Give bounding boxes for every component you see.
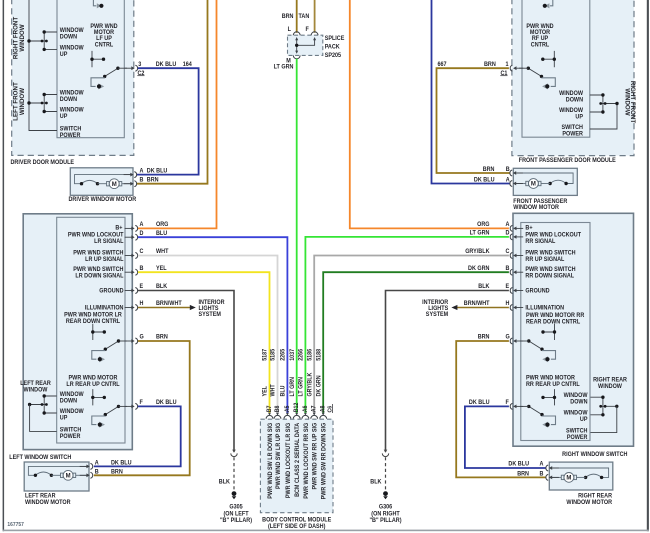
motor M1 internals [75, 175, 134, 189]
wire BLK (RWS E to G306) [386, 291, 509, 452]
motor M4 pin B [517, 471, 559, 480]
splice pin F [305, 27, 318, 36]
svg-text:A: A [506, 222, 511, 228]
RWS pin G (BRN) [478, 334, 524, 344]
RWS pin C (GRY/BLK) [465, 249, 523, 259]
wire DK BLU (LWS F to LR motor A) [94, 406, 181, 466]
motor M2 FRONT PASSENGER WINDOW MOTOR box [513, 168, 577, 195]
label BLK (G306) [370, 479, 382, 485]
svg-text:WINDOW: WINDOW [24, 387, 48, 393]
wire BLK dashed to G305 [233, 457, 235, 490]
svg-text:E: E [140, 284, 144, 290]
svg-text:(ON RIGHT: (ON RIGHT [371, 511, 400, 517]
svg-text:ORG: ORG [156, 222, 169, 228]
svg-text:WINDOW: WINDOW [60, 45, 84, 51]
svg-text:RIGHT REAR: RIGHT REAR [578, 493, 613, 499]
RWS pin D (LT GRN) [470, 230, 524, 240]
switch common bus (driver module) [29, 0, 57, 131]
arrow to interior lights system (right) [451, 305, 457, 310]
svg-text:ILLUMINATION: ILLUMINATION [525, 305, 564, 311]
svg-text:WINDOW: WINDOW [60, 90, 84, 96]
label LEFT WINDOW SWITCH [9, 455, 71, 461]
svg-text:PWR WND LOCKOUT: PWR WND LOCKOUT [525, 232, 581, 238]
switch S5 right rear window rocker contacts [591, 396, 619, 417]
module U2 FRONT PASSENGER DOOR MODULE box [512, 0, 634, 156]
LWS pin A (ORG) [125, 222, 169, 232]
svg-text:B8: B8 [275, 406, 281, 413]
svg-text:POWER: POWER [60, 434, 81, 440]
svg-text:G305: G305 [229, 504, 243, 510]
svg-text:BRN: BRN [483, 167, 495, 173]
svg-text:PWR WND SWITCH: PWR WND SWITCH [73, 250, 123, 256]
svg-text:PACK: PACK [325, 44, 341, 50]
svg-text:WINDOW MOTOR: WINDOW MOTOR [513, 205, 559, 211]
svg-text:DK BLU: DK BLU [508, 461, 529, 467]
svg-text:E: E [506, 284, 510, 290]
svg-text:BRN: BRN [478, 334, 490, 340]
svg-text:BLK: BLK [370, 479, 382, 485]
RWS pin H (BRN/WHT) [464, 301, 523, 311]
svg-text:B: B [140, 266, 144, 272]
label INTERIOR LIGHTS SYSTEM (right) [422, 300, 449, 318]
svg-text:GRY/BLK: GRY/BLK [307, 372, 313, 397]
labels BRN TAN at top of splice [282, 14, 310, 20]
svg-text:H: H [140, 301, 144, 307]
svg-text:WINDOW: WINDOW [623, 88, 630, 115]
svg-text:PWR WND SW LR DOWN SIG: PWR WND SW LR DOWN SIG [268, 422, 274, 498]
module U3 BODY CONTROL MODULE box [260, 419, 333, 513]
svg-text:BLK: BLK [156, 284, 168, 290]
svg-text:WINDOW: WINDOW [60, 28, 84, 34]
svg-text:DK GRN: DK GRN [468, 266, 489, 272]
wire DK BLU 164 (pin3 to driver motor A) [137, 68, 199, 174]
svg-text:WINDOW: WINDOW [60, 107, 84, 113]
pin 1 connector C1 (passenger door module) [500, 62, 523, 77]
svg-text:CNTRL: CNTRL [95, 42, 114, 48]
motor M3 pin B [80, 469, 123, 478]
svg-text:RR REAR UP CNTRL: RR REAR UP CNTRL [526, 382, 580, 388]
svg-text:B12: B12 [294, 403, 300, 413]
svg-text:DOWN: DOWN [60, 398, 77, 404]
BCM connector C6 label [327, 404, 333, 413]
motor M2 pin B [483, 167, 523, 176]
svg-text:YEL: YEL [156, 266, 167, 272]
wire DK BLU right (top to FP motor A) [432, 0, 511, 184]
LWS pin G (BRN) [125, 334, 168, 344]
label FRONT PASSENGER DOOR MODULE [519, 158, 616, 164]
label PWR WND MOTOR LR REAR UP CNTRL [66, 375, 120, 388]
svg-text:A7: A7 [311, 406, 317, 413]
label PWR WND MOTOR RF UP CNTRL [526, 24, 553, 49]
svg-text:PWR WND SWITCH: PWR WND SWITCH [525, 267, 575, 273]
wire DK GRN (RWS B to BCM A8) [323, 272, 509, 413]
wire label DK BLU 164 [156, 62, 193, 68]
splice pin L [288, 27, 300, 36]
svg-text:RIGHT WINDOW SWITCH: RIGHT WINDOW SWITCH [562, 452, 627, 458]
svg-text:BLU: BLU [156, 231, 167, 237]
diagram number 167757 [7, 522, 23, 528]
svg-text:DRIVER WINDOW MOTOR: DRIVER WINDOW MOTOR [69, 197, 137, 203]
BCM rotated wire number / color / pin labels [262, 348, 326, 412]
svg-text:A: A [540, 461, 545, 467]
svg-text:5188: 5188 [316, 348, 322, 361]
wire BLK (LWS E to G305) [138, 291, 234, 452]
RWS pin B (DK GRN) [468, 266, 523, 276]
svg-text:"B" PILLAR): "B" PILLAR) [369, 518, 401, 524]
svg-text:B: B [140, 177, 144, 183]
svg-text:PWR WND MOTOR LR: PWR WND MOTOR LR [64, 312, 122, 318]
svg-text:D: D [140, 231, 144, 237]
svg-text:DOWN: DOWN [570, 399, 587, 405]
svg-text:ORG: ORG [477, 222, 490, 228]
svg-text:M: M [66, 473, 71, 479]
svg-text:DK BLU: DK BLU [469, 400, 490, 406]
switch S4 left rear window rocker contacts [28, 394, 57, 414]
module U1 DRIVER DOOR MODULE box [12, 0, 134, 155]
label G306 ON RIGHT B PILLAR [369, 504, 401, 524]
svg-text:DOWN: DOWN [60, 34, 77, 40]
right rear switch common to SWITCH POWER [591, 406, 617, 432]
labels WINDOW DOWN / UP / SWITCH POWER (left rear) [60, 392, 84, 440]
label LEFT REAR WINDOW [20, 381, 51, 394]
svg-text:DK GRN: DK GRN [316, 375, 322, 396]
switch upper motor-control hook (cut off at top) [93, 0, 103, 8]
svg-text:BRN: BRN [111, 469, 123, 475]
label RIGHT WINDOW SWITCH [562, 452, 627, 458]
svg-text:LR UP SIGNAL: LR UP SIGNAL [85, 257, 124, 263]
svg-text:B: B [506, 167, 510, 173]
svg-text:SPLICE: SPLICE [325, 36, 345, 42]
switch RR REAR UP CNTRL (drives pin F) [520, 389, 556, 428]
switch assembly LEFT WINDOW SWITCH box [23, 214, 132, 450]
svg-text:A: A [140, 222, 145, 228]
svg-text:BLK: BLK [478, 284, 490, 290]
motor M3 pin A [80, 460, 132, 469]
svg-text:LT GRN: LT GRN [290, 377, 296, 397]
svg-text:LR SIGNAL: LR SIGNAL [94, 239, 124, 245]
svg-text:C: C [140, 249, 145, 255]
svg-text:B: B [540, 471, 544, 477]
svg-text:M: M [112, 182, 117, 188]
label SPLICE PACK SP205 [325, 36, 345, 59]
wire BRN (LWS G to LR motor B) [94, 341, 190, 475]
LWS internal signal labels [68, 225, 124, 312]
switch S2 left front window rocker contacts [27, 93, 57, 113]
svg-text:WINDOW: WINDOW [60, 392, 84, 398]
svg-text:H: H [506, 301, 510, 307]
wire TAN (top to splice F) [314, 0, 316, 33]
ground G306 symbol [383, 491, 388, 499]
switch LR REAR UP CNTRL (drives pin F) [91, 389, 127, 428]
svg-text:SWITCH: SWITCH [60, 427, 81, 433]
svg-text:LEFT WINDOW SWITCH: LEFT WINDOW SWITCH [9, 455, 71, 461]
LWS pin C (WHT) [125, 249, 169, 259]
wire BRN (RWS G to RR motor B) [456, 341, 545, 477]
label LT GRN below splice [274, 64, 294, 70]
svg-text:LT GRN: LT GRN [274, 64, 294, 70]
RWS internal signal labels [525, 225, 581, 312]
svg-text:DK BLU: DK BLU [147, 168, 168, 174]
label FRONT PASSENGER WINDOW MOTOR [513, 199, 568, 211]
svg-text:(LEFT SIDE OF DASH): (LEFT SIDE OF DASH) [268, 524, 326, 530]
svg-text:SP205: SP205 [325, 53, 342, 59]
svg-text:WHT: WHT [270, 384, 276, 397]
wire BLK dashed to G306 [385, 457, 387, 490]
ground G305 symbol [232, 491, 237, 499]
svg-text:BODY CONTROL MODULE: BODY CONTROL MODULE [262, 517, 331, 523]
BCM rotated signal name labels [268, 422, 328, 499]
left rear switch common to SWITCH POWER [30, 405, 57, 432]
svg-text:BRN: BRN [282, 14, 294, 20]
svg-text:C: C [506, 249, 511, 255]
svg-text:WINDOW: WINDOW [19, 24, 26, 51]
rotated label LEFT FRONT WINDOW [12, 82, 26, 121]
motor M4 pin A [508, 461, 558, 471]
RWS pin E (BLK) [478, 284, 523, 294]
wire BRN 667 (pin1 to FP motor B) [437, 68, 511, 173]
svg-text:B7: B7 [267, 406, 273, 413]
label PWR WND MOTOR LR REAR DOWN CNTRL [64, 312, 122, 325]
svg-text:BRN: BRN [147, 177, 159, 183]
svg-text:SYSTEM: SYSTEM [426, 312, 449, 318]
svg-text:WINDOW: WINDOW [564, 410, 588, 416]
rotated label RIGHT FRONT WINDOW (passenger) [623, 81, 636, 123]
label PWR WND MOTOR LF UP CNTRL [90, 24, 117, 49]
svg-text:B: B [506, 266, 510, 272]
svg-text:LR DOWN SIGNAL: LR DOWN SIGNAL [75, 273, 124, 279]
svg-text:TAN: TAN [299, 14, 310, 20]
svg-text:WHT: WHT [156, 249, 169, 255]
svg-text:A5: A5 [285, 406, 291, 413]
wire LT GRN (BCM A6 to RWS D) [305, 237, 509, 414]
svg-text:CNTRL: CNTRL [531, 42, 550, 48]
svg-text:RR DOWN SIGNAL: RR DOWN SIGNAL [525, 273, 574, 279]
LWS pin F (DK BLU) [125, 400, 177, 410]
svg-text:UP: UP [60, 114, 68, 120]
wire ORG left (top to LWS pin A) [138, 0, 217, 228]
label BLK (G305) [219, 479, 231, 485]
svg-text:PWR WND SWITCH: PWR WND SWITCH [73, 267, 123, 273]
ground G306 connector chevron [382, 450, 388, 457]
svg-text:FRONT PASSENGER DOOR MODULE: FRONT PASSENGER DOOR MODULE [519, 158, 616, 164]
svg-text:SYSTEM: SYSTEM [199, 312, 222, 318]
svg-text:POWER: POWER [567, 435, 588, 441]
labels WINDOW DOWN / WINDOW UP / SWITCH POWER (left front) [60, 90, 84, 139]
svg-text:DK BLU: DK BLU [156, 400, 177, 406]
svg-text:WINDOW MOTOR: WINDOW MOTOR [566, 500, 612, 506]
svg-text:PWR WND SW RR DOWN SIG: PWR WND SW RR DOWN SIG [321, 422, 327, 499]
svg-text:WINDOW: WINDOW [564, 393, 588, 399]
svg-text:BCM CLASS 2 SERIAL DATA: BCM CLASS 2 SERIAL DATA [295, 422, 301, 497]
svg-text:DRIVER DOOR MODULE: DRIVER DOOR MODULE [11, 160, 75, 166]
svg-text:2266: 2266 [298, 349, 304, 361]
label PWR WND MOTOR RR REAR UP CNTRL [526, 375, 580, 388]
splice pack SP205 box [288, 35, 323, 55]
motor M1 DRIVER WINDOW MOTOR box [70, 168, 133, 196]
svg-text:WINDOW: WINDOW [559, 108, 583, 114]
svg-text:L: L [288, 27, 292, 33]
svg-text:F: F [305, 27, 309, 33]
ground G305 connector chevron [231, 450, 237, 457]
svg-text:WINDOW: WINDOW [559, 91, 583, 97]
wire DK BLU (RWS F to RR motor A) [465, 406, 546, 468]
svg-text:D: D [506, 230, 510, 236]
switch S1 right front window rocker contacts [27, 30, 57, 51]
svg-text:PWR WND MOTOR RR: PWR WND MOTOR RR [526, 313, 585, 319]
svg-text:ILLUMINATION: ILLUMINATION [85, 305, 124, 311]
svg-text:WINDOW: WINDOW [598, 384, 622, 390]
svg-text:PWR WND MOTOR: PWR WND MOTOR [526, 375, 576, 381]
svg-text:1037: 1037 [290, 349, 296, 361]
svg-text:B: B [95, 469, 99, 475]
svg-text:UP: UP [580, 417, 588, 423]
arrow to interior lights system (left) [190, 305, 196, 310]
svg-text:POWER: POWER [562, 131, 583, 137]
LWS pin D (BLU) [125, 231, 168, 241]
svg-text:UP: UP [575, 114, 583, 120]
wire BRN/WHT (LWS H to interior lights) [138, 307, 190, 309]
BCM connector pin arcs [266, 413, 327, 419]
svg-text:RR SIGNAL: RR SIGNAL [525, 239, 555, 245]
LWS pin E (BLK) [125, 284, 168, 294]
switch upper motor-control hook (cut off, passenger) [543, 0, 553, 8]
wire BRN/WHT (RWS H to interior lights) [457, 307, 509, 309]
svg-text:UP: UP [60, 415, 68, 421]
svg-text:2265: 2265 [280, 348, 286, 361]
pin 3 connector C2 (driver door module) [125, 62, 146, 77]
svg-text:G: G [506, 334, 511, 340]
svg-text:B+: B+ [115, 225, 123, 231]
LWS pin H (BRN/WHT) [125, 301, 183, 311]
svg-text:F: F [140, 400, 144, 406]
svg-text:LT GRN: LT GRN [298, 377, 304, 397]
svg-text:GRY/BLK: GRY/BLK [465, 249, 490, 255]
svg-text:WINDOW MOTOR: WINDOW MOTOR [25, 500, 71, 506]
svg-text:PWR WND SW RR UP SIG: PWR WND SW RR UP SIG [312, 422, 318, 489]
wire GRY/BLK (RWS C to BCM A7) [314, 256, 509, 414]
label BODY CONTROL MODULE (LEFT SIDE OF DASH) [262, 517, 331, 530]
label DRIVER DOOR MODULE [11, 160, 75, 166]
svg-text:DOWN: DOWN [60, 97, 77, 103]
motor M1 pin A [124, 168, 168, 177]
svg-text:A6: A6 [303, 406, 309, 413]
svg-text:M: M [531, 182, 536, 188]
switch LR REAR DOWN CNTRL (drives pin G) [91, 324, 127, 363]
svg-text:(ON LEFT: (ON LEFT [223, 511, 249, 517]
svg-text:PWR WND MOTOR: PWR WND MOTOR [69, 375, 119, 381]
motor M3 LEFT REAR WINDOW MOTOR box [24, 462, 89, 491]
wire YEL (LWS B to BCM B7) [138, 272, 270, 413]
svg-text:RIGHT REAR: RIGHT REAR [593, 377, 628, 383]
splice pin M [286, 55, 300, 64]
wire BRN (top to driver motor B) [137, 0, 208, 184]
RWS pin A (ORG) [477, 222, 523, 232]
label RIGHT REAR WINDOW MOTOR [566, 493, 612, 506]
motor M2 internals [513, 173, 573, 188]
svg-text:F: F [506, 400, 510, 406]
svg-text:PWR WND SWITCH: PWR WND SWITCH [525, 250, 575, 256]
switch common bus (passenger module) [590, 104, 617, 130]
wire ORG right (top to RWS pin A) [350, 0, 509, 228]
switch S3 right front window rocker contacts (passenger) [590, 93, 619, 113]
label LEFT REAR WINDOW MOTOR [25, 493, 71, 506]
svg-text:G306: G306 [379, 504, 393, 510]
svg-text:BLU: BLU [280, 385, 286, 396]
motor M2 pin A [474, 177, 523, 186]
motor M4 RIGHT REAR WINDOW MOTOR box [549, 462, 613, 490]
svg-text:"B" PILLAR): "B" PILLAR) [220, 518, 252, 524]
labels WINDOW DOWN / UP / SWITCH POWER (right rear) [564, 393, 589, 441]
svg-text:RR UP SIGNAL: RR UP SIGNAL [525, 257, 564, 263]
svg-text:SWITCH: SWITCH [60, 126, 81, 132]
label PWR WND MOTOR RR REAR DOWN CNTRL [526, 313, 585, 326]
svg-text:GROUND: GROUND [99, 288, 123, 294]
svg-text:BRN/WHT: BRN/WHT [156, 301, 182, 307]
svg-text:YEL: YEL [262, 386, 268, 397]
label G305 ON LEFT B PILLAR [220, 504, 252, 524]
switch RR REAR DOWN CNTRL (drives pin G) [520, 324, 556, 363]
svg-text:BRN/WHT: BRN/WHT [464, 301, 490, 307]
motor M1 pin B [124, 177, 159, 186]
label RIGHT REAR WINDOW [593, 377, 628, 390]
svg-text:5186: 5186 [307, 349, 313, 361]
svg-text:5187: 5187 [262, 349, 268, 361]
svg-text:M: M [566, 476, 571, 482]
svg-text:LEFT REAR: LEFT REAR [20, 381, 51, 387]
label DRIVER WINDOW MOTOR [69, 197, 137, 203]
wire BRN (top to splice L) [296, 0, 298, 33]
wire LT GRN (splice M to BCM B12) [296, 59, 298, 414]
wire WHT (LWS C to BCM B8) [138, 256, 278, 414]
splice pack internal bus [295, 37, 316, 54]
svg-text:5185: 5185 [270, 348, 276, 361]
svg-text:UP: UP [60, 52, 68, 58]
svg-text:167757: 167757 [7, 522, 23, 528]
svg-text:BRN: BRN [517, 471, 529, 477]
wire label 667 BRN [438, 62, 496, 68]
svg-text:GROUND: GROUND [525, 288, 549, 294]
svg-text:LT GRN: LT GRN [470, 230, 490, 236]
svg-text:PWR WND LOCKOUT LR SIG: PWR WND LOCKOUT LR SIG [286, 422, 292, 498]
switch RF UP CNTRL (drives pin 1) [519, 51, 556, 90]
svg-text:REAR DOWN CNTRL: REAR DOWN CNTRL [526, 319, 581, 325]
svg-text:G: G [140, 334, 145, 340]
svg-text:LR REAR UP CNTRL: LR REAR UP CNTRL [66, 382, 120, 388]
RWS pin F (DK BLU) [469, 400, 523, 410]
svg-text:WINDOW: WINDOW [60, 409, 84, 415]
svg-text:BRN: BRN [156, 334, 168, 340]
LWS pin B (YEL) [125, 266, 167, 276]
motor M4 internals [549, 468, 608, 482]
svg-text:A8: A8 [320, 406, 326, 413]
svg-text:DK BLU: DK BLU [111, 460, 132, 466]
svg-text:POWER: POWER [60, 133, 81, 139]
svg-text:PWR WND SW LR UP SIG: PWR WND SW LR UP SIG [276, 422, 282, 489]
svg-text:LEFT REAR: LEFT REAR [25, 493, 56, 499]
labels WINDOW DOWN / UP / SWITCH POWER (passenger) [559, 91, 584, 138]
rotated label RIGHT FRONT WINDOW [12, 17, 26, 59]
labels WINDOW DOWN / WINDOW UP (right front) [60, 28, 84, 58]
wire BLU (LWS D to BCM A5) [138, 237, 288, 413]
svg-text:B+: B+ [525, 225, 533, 231]
svg-text:PWR WND LOCKOUT: PWR WND LOCKOUT [68, 232, 124, 238]
switch LF UP CNTRL (drives pin 3) [90, 51, 127, 90]
switch assembly RIGHT WINDOW SWITCH box [513, 213, 634, 446]
svg-text:WINDOW: WINDOW [19, 88, 26, 115]
svg-text:DOWN: DOWN [566, 97, 583, 103]
label INTERIOR LIGHTS SYSTEM (left) [199, 300, 226, 318]
svg-text:DK BLU: DK BLU [474, 177, 495, 183]
